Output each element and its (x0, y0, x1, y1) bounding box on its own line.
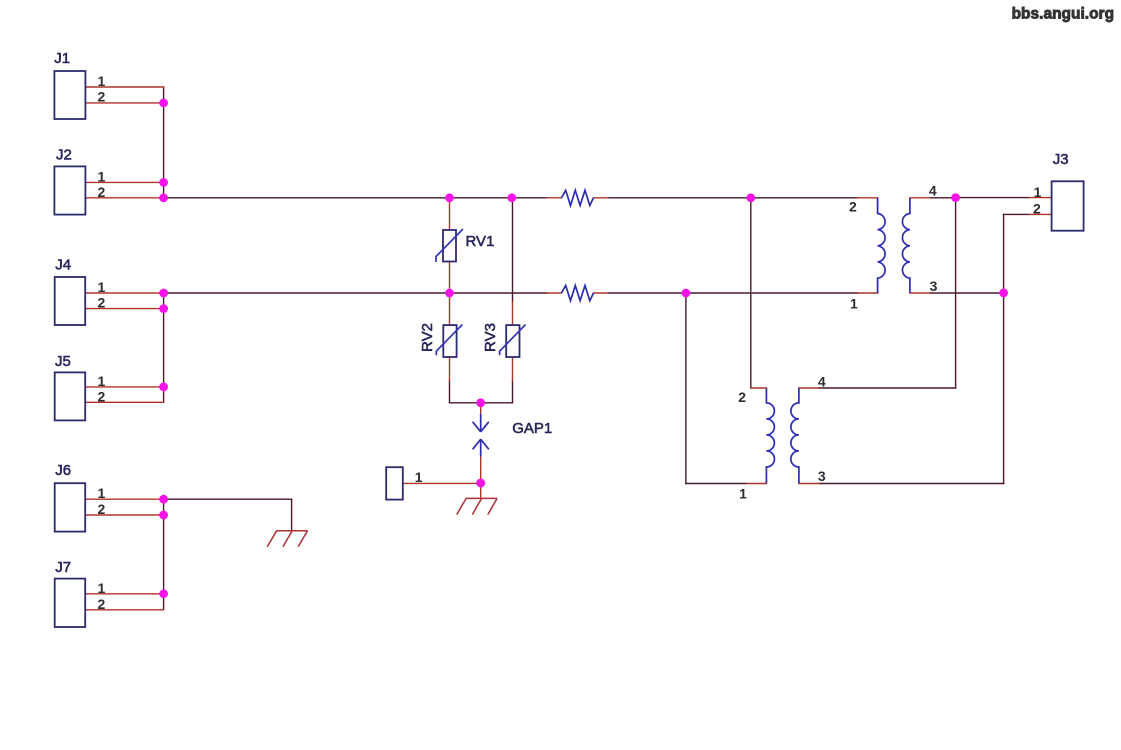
svg-text:1: 1 (98, 73, 106, 89)
svg-text:2: 2 (1033, 201, 1041, 217)
svg-text:3: 3 (818, 468, 826, 484)
svg-text:1: 1 (415, 469, 423, 485)
svg-text:3: 3 (930, 278, 938, 294)
svg-text:2: 2 (98, 388, 106, 404)
svg-text:2: 2 (849, 199, 857, 215)
svg-text:GAP1: GAP1 (512, 420, 552, 437)
svg-text:2: 2 (98, 596, 106, 612)
svg-text:2: 2 (98, 184, 106, 200)
svg-text:J4: J4 (55, 257, 71, 274)
svg-text:1: 1 (98, 169, 106, 185)
svg-text:1: 1 (98, 580, 106, 596)
svg-text:J7: J7 (55, 559, 71, 576)
svg-text:2: 2 (738, 389, 746, 405)
svg-text:J1: J1 (54, 50, 70, 67)
svg-text:bbs.angui.org: bbs.angui.org (1012, 6, 1114, 23)
svg-text:4: 4 (929, 182, 937, 198)
svg-text:2: 2 (98, 501, 106, 517)
svg-text:1: 1 (739, 485, 747, 501)
svg-text:1: 1 (98, 485, 106, 501)
svg-text:J5: J5 (55, 353, 71, 370)
svg-text:4: 4 (818, 374, 826, 390)
svg-text:J3: J3 (1053, 151, 1069, 168)
svg-text:J6: J6 (55, 462, 71, 479)
svg-text:1: 1 (98, 279, 106, 295)
svg-text:1: 1 (1034, 184, 1042, 200)
svg-text:1: 1 (850, 295, 858, 311)
svg-text:RV2: RV2 (419, 323, 436, 352)
svg-text:J2: J2 (56, 147, 72, 164)
svg-text:RV3: RV3 (482, 323, 499, 352)
svg-text:2: 2 (98, 89, 106, 105)
svg-text:1: 1 (98, 373, 106, 389)
svg-text:2: 2 (98, 295, 106, 311)
svg-text:RV1: RV1 (466, 233, 495, 250)
